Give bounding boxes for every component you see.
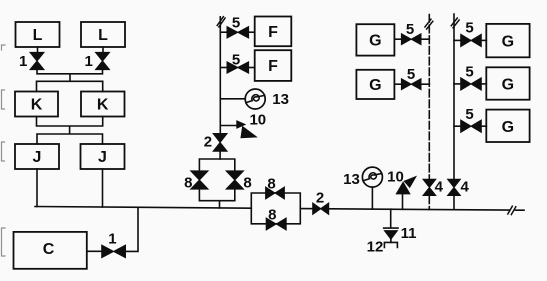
svg-text:C: C <box>43 241 55 258</box>
wire riser to F1 valve <box>220 31 227 33</box>
svg-text:13: 13 <box>343 171 360 188</box>
wire valve to F2 <box>249 67 255 69</box>
wire valve to dashed riser <box>421 38 429 40</box>
svg-text:4: 4 <box>461 179 470 196</box>
bypass loop (vertical pair) frame <box>199 159 234 208</box>
gauge 13 (main header) <box>343 167 382 209</box>
svg-text:12: 12 <box>367 239 384 256</box>
svg-text:K: K <box>97 97 109 114</box>
svg-text:G: G <box>502 119 514 136</box>
wire C valve to main header <box>126 207 139 251</box>
box G (right col, top) <box>486 24 529 57</box>
box J1 <box>15 144 59 169</box>
svg-text:5: 5 <box>232 15 240 32</box>
svg-text:5: 5 <box>407 66 415 83</box>
wire G to valve <box>395 83 403 85</box>
svg-text:F: F <box>268 58 278 75</box>
box G (right col, bottom) <box>486 110 529 142</box>
wire valve 2 to bypass loop <box>219 151 221 159</box>
svg-text:5: 5 <box>465 20 473 37</box>
valve 5 (right G top) <box>461 20 482 47</box>
wire right riser to valve (G right bottom) <box>454 125 461 127</box>
wire valve to F1 <box>249 31 255 33</box>
svg-text:J: J <box>33 149 42 166</box>
valve 1 (below L1) <box>19 52 44 70</box>
box C <box>14 232 87 269</box>
mid riser pipe <box>219 17 221 134</box>
wire valve to G box <box>481 125 486 127</box>
valve 5 (left G bottom) <box>401 66 421 90</box>
svg-text:1: 1 <box>85 53 93 70</box>
svg-text:J: J <box>98 149 107 166</box>
box J2 <box>81 144 125 169</box>
svg-text:8: 8 <box>184 174 192 191</box>
svg-text:13: 13 <box>272 91 289 108</box>
box G (left col, bottom) <box>356 70 394 99</box>
pipe break (top of dashed riser) <box>425 19 433 29</box>
svg-text:5: 5 <box>406 21 414 38</box>
valve 4 (dashed riser) <box>423 179 444 196</box>
wire L-valves junction to K headers <box>37 69 103 91</box>
valve 5 (to F2) <box>227 51 249 73</box>
box F1 <box>255 17 292 47</box>
wire J1 drop to main header <box>36 169 38 207</box>
gauge 13 (mid riser) <box>245 89 289 109</box>
svg-text:11: 11 <box>401 225 417 242</box>
valve 8 (left branch) <box>184 171 208 191</box>
box F2 <box>255 50 292 81</box>
wire right riser to valve (G right top) <box>454 39 461 41</box>
svg-text:G: G <box>369 77 381 94</box>
svg-text:G: G <box>369 33 381 50</box>
box L1 <box>16 22 60 47</box>
valve 2 (mid riser) <box>204 133 227 151</box>
wire L2 to valve <box>102 47 104 53</box>
valve 4 (right riser) <box>448 179 470 196</box>
svg-text:5: 5 <box>232 51 240 68</box>
svg-text:G: G <box>502 34 514 51</box>
wire valve to dashed riser <box>421 83 429 85</box>
svg-text:8: 8 <box>268 207 276 224</box>
box K2 <box>81 92 125 117</box>
relief valve 10 (main header) <box>387 169 416 210</box>
svg-text:10: 10 <box>387 169 404 186</box>
valve 2 (main header) <box>313 190 329 215</box>
svg-text:5: 5 <box>465 64 473 81</box>
box G (left col, top) <box>356 24 394 55</box>
valve 1 (C outlet) <box>102 231 126 258</box>
right riser pipe <box>453 14 455 210</box>
wire valve to G box <box>481 39 486 41</box>
valve 5 (right G mid) <box>461 64 482 91</box>
main header pipe <box>35 207 524 211</box>
valve 8 (right branch) <box>226 171 252 191</box>
svg-text:10: 10 <box>249 112 266 129</box>
bypass loop on main header frame <box>251 193 300 224</box>
wire valve to G box <box>481 83 486 85</box>
valve 8 (loop bottom branch) <box>266 207 286 231</box>
box K1 <box>15 92 58 117</box>
wire riser to F2 valve <box>220 67 227 69</box>
drain valve 11 <box>384 209 417 242</box>
pipe break (right end of main header) <box>508 206 516 214</box>
valve 5 (to F1) <box>227 15 249 39</box>
dashed riser pipe <box>428 15 430 180</box>
svg-text:2: 2 <box>316 190 324 207</box>
wire right riser to valve (G right mid) <box>454 83 461 85</box>
relief valve 10 (mid riser) <box>220 112 266 138</box>
wire G to valve <box>395 38 403 40</box>
svg-text:F: F <box>268 24 278 41</box>
wire C to valve <box>87 250 102 252</box>
wire L1 to valve <box>37 47 39 53</box>
svg-text:G: G <box>502 77 514 94</box>
svg-text:8: 8 <box>267 175 275 192</box>
pipe break (top of right riser) <box>451 18 459 28</box>
wire J2 drop to main header <box>102 169 104 207</box>
svg-text:L: L <box>98 27 108 44</box>
box L2 <box>81 22 125 47</box>
box G (right col, mid) <box>486 67 529 99</box>
svg-text:5: 5 <box>465 106 473 123</box>
valve 5 (left G top) <box>401 21 421 45</box>
svg-text:L: L <box>33 27 43 44</box>
valve 8 (loop top branch) <box>266 175 285 199</box>
valve 5 (right G bottom) <box>461 106 482 133</box>
wire K boxes to J headers <box>37 117 103 145</box>
svg-text:1: 1 <box>108 231 116 248</box>
drain outlet 12 <box>367 239 398 256</box>
valve 1 (below L2) <box>85 52 110 70</box>
svg-text:4: 4 <box>435 179 444 196</box>
svg-text:1: 1 <box>19 53 27 70</box>
pipe break (top of mid riser) <box>217 17 225 27</box>
svg-text:8: 8 <box>243 174 251 191</box>
wire riser to gauge 13 <box>220 98 245 100</box>
svg-text:K: K <box>31 97 43 114</box>
svg-text:2: 2 <box>204 133 212 150</box>
